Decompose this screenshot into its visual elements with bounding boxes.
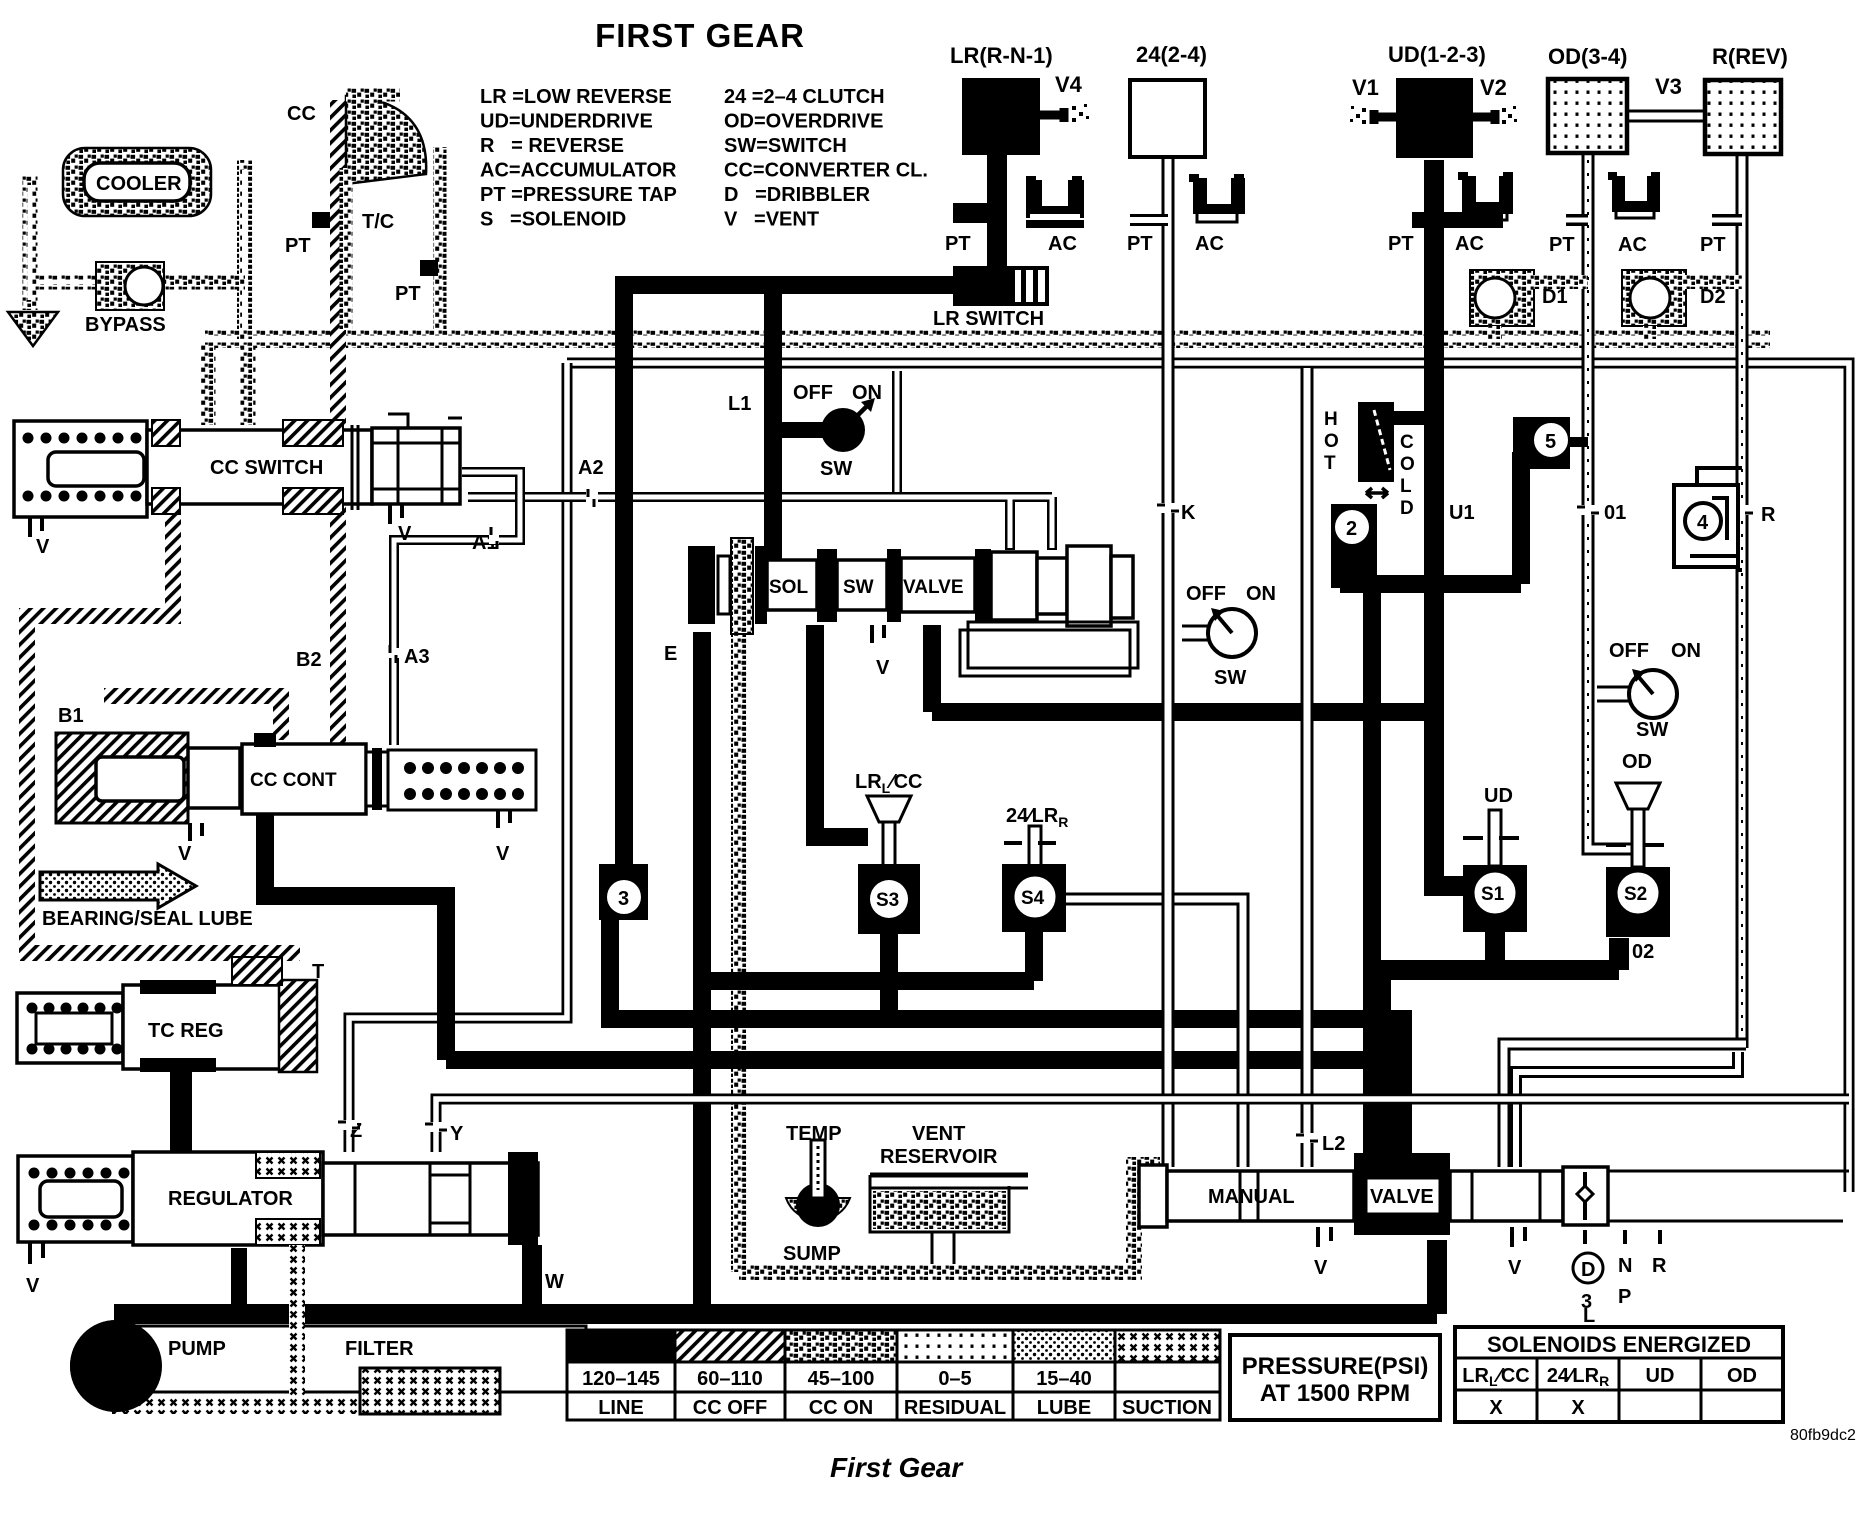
svg-text:T/C: T/C bbox=[362, 211, 394, 233]
svg-text:OFF: OFF bbox=[1609, 640, 1649, 662]
gear selector positions bbox=[1585, 1230, 1660, 1244]
svg-text:W: W bbox=[545, 1271, 564, 1293]
svg-text:S4: S4 bbox=[1021, 888, 1045, 909]
TC REG body bbox=[123, 985, 283, 1069]
svg-text:LINE: LINE bbox=[598, 1397, 644, 1419]
svg-text:LR(R-N-1): LR(R-N-1) bbox=[950, 43, 1053, 68]
svg-text:C: C bbox=[1400, 432, 1414, 453]
vent V (manual valve right) bbox=[1512, 1227, 1525, 1247]
pressure legend table bbox=[567, 1330, 1220, 1420]
accumulator AC (LR) black bbox=[1026, 180, 1084, 218]
pressure tap PT (LR) bbox=[953, 155, 1007, 266]
wire: hatched bearing/seal lube feed line bbox=[20, 945, 300, 953]
svg-text:R: R bbox=[1761, 504, 1776, 526]
svg-text:VALVE: VALVE bbox=[903, 577, 964, 598]
accumulator AC (24) bbox=[1193, 178, 1245, 214]
svg-text:OD=OVERDRIVE: OD=OVERDRIVE bbox=[724, 111, 883, 133]
vent nozzle V2 bbox=[1473, 110, 1495, 124]
wire: S4 output channel to manual valve bbox=[1066, 899, 1243, 1167]
thick black line: LR switch output to left and down (3 line) bbox=[624, 285, 965, 872]
svg-text:O: O bbox=[1324, 431, 1339, 452]
node 2 (circled) bbox=[1331, 504, 1377, 588]
COMPONENTS bbox=[933, 42, 1788, 339]
svg-text:45–100: 45–100 bbox=[808, 1368, 875, 1390]
svg-text:D1: D1 bbox=[1542, 286, 1568, 308]
node 3 (circled) bbox=[599, 864, 648, 920]
svg-text:SW=SWITCH: SW=SWITCH bbox=[724, 135, 847, 157]
thick black line: regulator W port down bbox=[522, 1245, 542, 1318]
thick black line: S1/S2 output run to manual valve bbox=[1372, 930, 1619, 1167]
svg-text:SUMP: SUMP bbox=[783, 1243, 841, 1265]
vent V (CC switch left) bbox=[30, 517, 42, 537]
svg-text:OFF: OFF bbox=[1186, 583, 1226, 605]
svg-text:01: 01 bbox=[1604, 502, 1626, 524]
svg-text:LUBE: LUBE bbox=[1037, 1397, 1091, 1419]
wire: OD-R vent connector V3 bbox=[1627, 110, 1705, 123]
svg-text:24(2-4): 24(2-4) bbox=[1136, 42, 1207, 67]
svg-text:REGULATOR: REGULATOR bbox=[168, 1188, 293, 1210]
vent V (regulator left) bbox=[30, 1242, 43, 1264]
svg-text:SW: SW bbox=[1636, 719, 1668, 741]
wire: hatched B1 branch to CC cont bbox=[104, 696, 281, 740]
solenoid switch valve (SOL SW VALVE) bbox=[688, 546, 715, 624]
valve pilot loop bbox=[960, 630, 1130, 676]
thick black line: SW toggle stub bbox=[782, 422, 826, 438]
svg-text:AC: AC bbox=[1618, 234, 1647, 256]
cooler return arrow (vent to sump) bbox=[8, 312, 58, 346]
thick black line: SOL valve output to switched band bbox=[932, 625, 1434, 712]
torque converter T/C bbox=[346, 96, 426, 184]
svg-text:UD: UD bbox=[1646, 1365, 1675, 1387]
wire: R line elbow into manual valve bbox=[1504, 1044, 1746, 1167]
svg-text:SUCTION: SUCTION bbox=[1122, 1397, 1212, 1419]
svg-text:K: K bbox=[1181, 502, 1196, 524]
thick black line: L1 branch down to SOL valve bbox=[764, 285, 782, 560]
svg-text:PT: PT bbox=[395, 283, 421, 305]
wire: suction channel pump to filter bbox=[112, 1398, 360, 1414]
clutch 24(2-4) bbox=[1130, 80, 1205, 157]
svg-text:V: V bbox=[178, 843, 192, 865]
svg-text:AC: AC bbox=[1195, 233, 1224, 255]
svg-text:24 =2–4 CLUTCH: 24 =2–4 CLUTCH bbox=[724, 86, 885, 108]
svg-text:CC OFF: CC OFF bbox=[693, 1397, 767, 1419]
svg-text:80fb9dc2: 80fb9dc2 bbox=[1790, 1427, 1856, 1444]
wire: R reverse residual channel down right side bbox=[1736, 153, 1749, 1048]
svg-text:PT: PT bbox=[1127, 233, 1153, 255]
wire: stippled cooler feed down from main line bbox=[237, 160, 253, 339]
svg-text:RESIDUAL: RESIDUAL bbox=[904, 1397, 1006, 1419]
dribbler D2 bbox=[1622, 270, 1686, 326]
CC switch valve spring chamber bbox=[14, 421, 147, 517]
thick black line: E exhaust line down to pump run bbox=[693, 632, 711, 1312]
svg-text:D: D bbox=[1400, 498, 1414, 519]
wire: stippled sump left wall / dribbler channel from SOL valve bbox=[739, 560, 1160, 1272]
svg-text:BEARING/SEAL LUBE: BEARING/SEAL LUBE bbox=[42, 908, 253, 930]
svg-text:UD: UD bbox=[1484, 785, 1513, 807]
svg-text:R(REV): R(REV) bbox=[1712, 44, 1788, 69]
svg-text:X: X bbox=[1489, 1397, 1503, 1419]
thick black line: UD clutch line down to S1 bbox=[1434, 160, 1468, 886]
clutch UD(1-2-3) bbox=[1396, 78, 1473, 158]
svg-text:V1: V1 bbox=[1352, 75, 1379, 100]
vent nozzle V4 bbox=[1040, 108, 1064, 122]
wire: hatched B2 line CC switch down to CC cont bbox=[330, 505, 346, 745]
node 5 (circled) bbox=[1513, 417, 1570, 469]
CC cont spring (right) bbox=[388, 750, 536, 810]
wire: OD residual line down to S2 bbox=[1588, 152, 1638, 867]
svg-text:LR SWITCH: LR SWITCH bbox=[933, 308, 1044, 330]
pressure tap PT (T/C left) bbox=[312, 212, 330, 228]
svg-text:SW: SW bbox=[820, 458, 852, 480]
svg-text:L: L bbox=[1400, 476, 1412, 497]
regulator spool lands bbox=[323, 1163, 538, 1235]
accumulator AC (OD) bbox=[1612, 176, 1660, 212]
svg-text:CC: CC bbox=[287, 103, 316, 125]
TC REG spring chamber bbox=[17, 993, 123, 1063]
svg-text:O: O bbox=[1400, 454, 1415, 475]
svg-text:U1: U1 bbox=[1449, 502, 1475, 524]
svg-text:L2: L2 bbox=[1322, 1133, 1345, 1155]
svg-text:D2: D2 bbox=[1700, 286, 1726, 308]
wire: inner nested channel from R line to manual valve bbox=[1516, 1052, 1738, 1167]
svg-text:VALVE: VALVE bbox=[1370, 1186, 1434, 1208]
thick black line: thermal valve 2 output band to 5 bbox=[1340, 452, 1521, 1015]
vent V (manual valve left) bbox=[1318, 1227, 1331, 1247]
svg-text:PT: PT bbox=[285, 235, 311, 257]
svg-text:VENT: VENT bbox=[912, 1123, 965, 1145]
svg-text:V: V bbox=[398, 523, 412, 545]
manual valve right spool bbox=[1450, 1171, 1563, 1221]
svg-text:PRESSURE(PSI): PRESSURE(PSI) bbox=[1242, 1353, 1429, 1380]
BOTTOM_TABLES bbox=[567, 1327, 1856, 1483]
temperature arrows bbox=[1366, 488, 1388, 498]
svg-text:D: D bbox=[1581, 1259, 1595, 1281]
clutch R(REV) bbox=[1705, 80, 1781, 154]
svg-text:PT: PT bbox=[1388, 233, 1414, 255]
svg-text:UD=UNDERDRIVE: UD=UNDERDRIVE bbox=[480, 111, 653, 133]
svg-text:PT: PT bbox=[945, 233, 971, 255]
svg-text:S1: S1 bbox=[1481, 884, 1505, 905]
svg-text:V: V bbox=[1508, 1257, 1522, 1279]
svg-text:CC ON: CC ON bbox=[809, 1397, 873, 1419]
manual valve lever bbox=[1563, 1167, 1608, 1225]
thick black line: S3 down to 1019 run bbox=[880, 930, 898, 1019]
svg-text:V3: V3 bbox=[1655, 74, 1682, 99]
vent V (under SW section) bbox=[872, 625, 884, 643]
wire: hatched T line to TC REG bbox=[254, 953, 270, 985]
svg-text:V: V bbox=[1314, 1257, 1328, 1279]
svg-text:PUMP: PUMP bbox=[168, 1338, 226, 1360]
svg-text:TC REG: TC REG bbox=[148, 1020, 224, 1042]
svg-text:FILTER: FILTER bbox=[345, 1338, 414, 1360]
CENTER COMPONENTS bbox=[599, 382, 1776, 1327]
svg-text:OD: OD bbox=[1622, 751, 1652, 773]
channel label breaks bbox=[338, 489, 1753, 1143]
wire: suction channel redraw over pump box bbox=[289, 1245, 305, 1406]
thick black line: LR feed from clutch to LR switch bbox=[987, 155, 1007, 282]
valve 4 (overrun) bbox=[1674, 485, 1738, 567]
svg-text:AC: AC bbox=[1048, 233, 1077, 255]
svg-text:A3: A3 bbox=[404, 646, 430, 668]
svg-text:V =VENT: V =VENT bbox=[724, 209, 819, 231]
svg-text:V: V bbox=[36, 536, 50, 558]
manual valve VALVE section bbox=[1354, 1153, 1450, 1235]
vent nozzle V1 bbox=[1374, 110, 1396, 124]
svg-text:SW: SW bbox=[843, 577, 874, 598]
wire: big thin-line loop left leg down to Z elbow bbox=[349, 363, 567, 1152]
CC cont valve spring chamber (hatched) bbox=[56, 733, 188, 823]
svg-text:OD(3-4): OD(3-4) bbox=[1548, 44, 1627, 69]
thick black line: circled-3 line down to long bottom run bbox=[610, 916, 1400, 1019]
manual valve body bbox=[1167, 1171, 1354, 1221]
svg-text:AT 1500 RPM: AT 1500 RPM bbox=[1260, 1380, 1410, 1407]
regulator bottom port to pump line bbox=[231, 1248, 247, 1314]
svg-text:L1: L1 bbox=[728, 393, 751, 415]
thick black line: black column into manual valve bbox=[1363, 1010, 1412, 1170]
svg-text:Y: Y bbox=[450, 1123, 464, 1145]
vent V (CC switch right) bbox=[390, 504, 402, 524]
svg-text:5: 5 bbox=[1545, 431, 1556, 453]
pressure tap PT (T/C right) bbox=[420, 260, 438, 276]
svg-text:T: T bbox=[1324, 453, 1336, 474]
pressure tap PT (UD) bbox=[1412, 212, 1503, 228]
svg-text:COOLER: COOLER bbox=[96, 173, 182, 195]
svg-text:ON: ON bbox=[1246, 583, 1276, 605]
wire: hatched line CC switch to left elbow bbox=[27, 505, 173, 952]
svg-text:OD: OD bbox=[1727, 1365, 1757, 1387]
regulator body bbox=[133, 1152, 323, 1245]
wire: A1/A3 thin channel from CC switch to CC cont bbox=[394, 472, 520, 745]
svg-text:E: E bbox=[664, 643, 677, 665]
dribbler D1 bbox=[1470, 270, 1534, 326]
svg-text:P: P bbox=[1618, 1286, 1631, 1308]
svg-text:4: 4 bbox=[1697, 512, 1709, 534]
svg-text:N: N bbox=[1618, 1255, 1632, 1277]
svg-text:B2: B2 bbox=[296, 649, 322, 671]
svg-text:SW: SW bbox=[1214, 667, 1246, 689]
filter element bbox=[360, 1368, 500, 1414]
svg-text:AC: AC bbox=[1455, 233, 1484, 255]
svg-text:3: 3 bbox=[618, 888, 629, 910]
svg-text:PT: PT bbox=[1700, 234, 1726, 256]
svg-text:S =SOLENOID: S =SOLENOID bbox=[480, 209, 626, 231]
svg-text:SOL: SOL bbox=[769, 577, 808, 598]
svg-text:2: 2 bbox=[1346, 518, 1357, 540]
svg-text:CC=CONVERTER CL.: CC=CONVERTER CL. bbox=[724, 160, 928, 182]
wire: stippled loop to CC switch bbox=[208, 345, 248, 425]
svg-text:S2: S2 bbox=[1624, 884, 1647, 905]
svg-text:H: H bbox=[1324, 409, 1338, 430]
bypass valve bbox=[96, 262, 164, 310]
svg-text:X: X bbox=[1571, 1397, 1585, 1419]
wire: cooler left channel and bypass loop bbox=[30, 175, 245, 310]
svg-text:SOLENOIDS ENERGIZED: SOLENOIDS ENERGIZED bbox=[1487, 1332, 1751, 1357]
wire: 24 clutch channel (K) down to manual valve bbox=[1162, 159, 1175, 1167]
vent V (CC cont right) bbox=[498, 810, 510, 828]
thick black line: CC cont output to bottom long run bbox=[265, 810, 1388, 1060]
CC switch right land bbox=[372, 428, 460, 504]
pressure note box bbox=[1230, 1335, 1440, 1420]
svg-text:A2: A2 bbox=[578, 457, 604, 479]
wire: 24 channel PT tap bbox=[1130, 214, 1168, 226]
cooler bbox=[63, 148, 211, 216]
wire: thin channel loop-top to A2 bbox=[892, 371, 902, 497]
svg-text:V: V bbox=[876, 657, 890, 679]
svg-text:120–145: 120–145 bbox=[582, 1368, 660, 1390]
svg-text:S3: S3 bbox=[876, 890, 899, 911]
svg-text:MANUAL: MANUAL bbox=[1208, 1186, 1295, 1208]
thick black line: SOL valve port down to S3 bbox=[815, 625, 868, 837]
legend abbreviation list bbox=[480, 86, 928, 231]
svg-text:V: V bbox=[496, 843, 510, 865]
wire: main converter-clutch-on stippled line (cooler feed) bbox=[205, 330, 1770, 348]
svg-text:CC SWITCH: CC SWITCH bbox=[210, 457, 323, 479]
svg-text:V: V bbox=[26, 1275, 40, 1297]
svg-text:L: L bbox=[1583, 1305, 1595, 1327]
wire: suction line from regulator to filter bbox=[150, 1245, 297, 1406]
CC switch valve body bbox=[147, 430, 372, 504]
CC hatched vertical line (converter clutch off) bbox=[330, 100, 346, 425]
accumulator AC (UD) bbox=[1462, 176, 1513, 214]
thick black line: S4 bottom run bbox=[702, 930, 1034, 981]
svg-text:First Gear: First Gear bbox=[830, 1452, 964, 1483]
regulator spring chamber bbox=[18, 1156, 133, 1242]
svg-text:0–5: 0–5 bbox=[938, 1368, 971, 1390]
wire: manual valve right output channel bbox=[1608, 1171, 1849, 1221]
thick black line: pump output main run bbox=[114, 1240, 1437, 1314]
pump bbox=[70, 1320, 162, 1412]
LR switch body bbox=[953, 266, 1013, 306]
wire: L2 switched channel from loop top down to manual valve bbox=[1301, 368, 1314, 1167]
wire: long thin line above sump (Y line) bbox=[436, 1099, 1849, 1152]
bearing/seal lube arrow bbox=[40, 864, 196, 908]
pressure tap PT (R) bbox=[1712, 214, 1742, 226]
svg-text:02: 02 bbox=[1632, 941, 1654, 963]
svg-text:PT =PRESSURE TAP: PT =PRESSURE TAP bbox=[480, 184, 677, 206]
TC REG hatched end bbox=[279, 980, 317, 1072]
svg-text:60–110: 60–110 bbox=[697, 1368, 763, 1390]
wire: channel crossings drawn over thick lines bbox=[560, 380, 1849, 1167]
svg-text:PT: PT bbox=[1549, 234, 1575, 256]
svg-text:V4: V4 bbox=[1055, 72, 1083, 97]
solenoids energized table bbox=[1455, 1327, 1783, 1422]
svg-text:B1: B1 bbox=[58, 705, 84, 727]
pressure tap PT (OD) bbox=[1566, 214, 1588, 226]
svg-text:CC CONT: CC CONT bbox=[250, 770, 337, 791]
svg-text:UD(1-2-3): UD(1-2-3) bbox=[1388, 42, 1486, 67]
svg-text:AC=ACCUMULATOR: AC=ACCUMULATOR bbox=[480, 160, 677, 182]
svg-text:R = REVERSE: R = REVERSE bbox=[480, 135, 624, 157]
svg-text:FIRST GEAR: FIRST GEAR bbox=[595, 17, 805, 54]
clutch OD(3-4) bbox=[1548, 79, 1627, 153]
vent V (CC cont left) bbox=[190, 823, 202, 841]
wire: A2 thin channel bbox=[468, 497, 1052, 550]
svg-text:LR =LOW REVERSE: LR =LOW REVERSE bbox=[480, 86, 672, 108]
svg-text:ON: ON bbox=[1671, 640, 1701, 662]
svg-text:RESERVOIR: RESERVOIR bbox=[880, 1146, 998, 1168]
svg-text:15–40: 15–40 bbox=[1036, 1368, 1092, 1390]
svg-text:V2: V2 bbox=[1480, 75, 1507, 100]
svg-text:BYPASS: BYPASS bbox=[85, 314, 166, 336]
svg-text:OFF: OFF bbox=[793, 382, 833, 404]
svg-text:D =DRIBBLER: D =DRIBBLER bbox=[724, 184, 871, 206]
wire: big thin-line loop top (switched line) bbox=[567, 363, 1849, 1192]
CC cont valve body bbox=[188, 748, 240, 808]
thick black line: TC REG output down to regulator bbox=[170, 1070, 192, 1152]
clutch LR(R-N-1) bbox=[962, 78, 1040, 155]
svg-text:R: R bbox=[1652, 1255, 1667, 1277]
